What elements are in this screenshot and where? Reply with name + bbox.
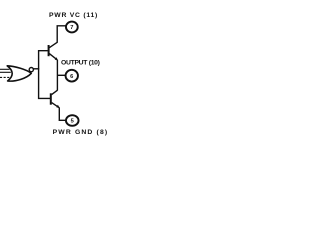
wire base rail with leads to Q1 and Q2 bases	[39, 51, 50, 99]
wire output node to pin 6	[57, 74, 66, 76]
svg-text:PWR VC (11): PWR VC (11)	[49, 12, 98, 19]
svg-text:7: 7	[70, 25, 73, 31]
collector lead	[49, 42, 57, 48]
input wire C (dashed, more inputs)	[0, 76, 10, 78]
collector lead	[52, 90, 58, 94]
base bar	[50, 93, 52, 104]
pin 7	[66, 22, 78, 33]
svg-text:OUTPUT (10): OUTPUT (10)	[61, 59, 100, 66]
svg-text:PWR GND (8): PWR GND (8)	[53, 129, 109, 136]
wire collector Q1 to pin 7	[57, 26, 66, 43]
svg-text:5: 5	[71, 119, 74, 125]
wire emitter Q2 to pin 5	[59, 108, 65, 121]
NOR gate output bubble	[29, 68, 33, 72]
input wire B	[0, 71, 11, 73]
svg-text:6: 6	[70, 74, 73, 80]
base bar	[48, 45, 50, 56]
transistor Q1	[48, 42, 58, 60]
emitter lead with arrow	[52, 103, 60, 108]
pin 5	[66, 115, 79, 126]
input wire A	[0, 68, 10, 70]
wire gate output stub	[33, 68, 39, 70]
pin 6	[66, 70, 78, 82]
emitter lead with arrow	[49, 54, 57, 60]
NOR gate U1 body	[7, 66, 31, 81]
wire emitter Q1 down through output node to collector Q2	[56, 60, 58, 91]
transistor Q2	[50, 90, 60, 108]
